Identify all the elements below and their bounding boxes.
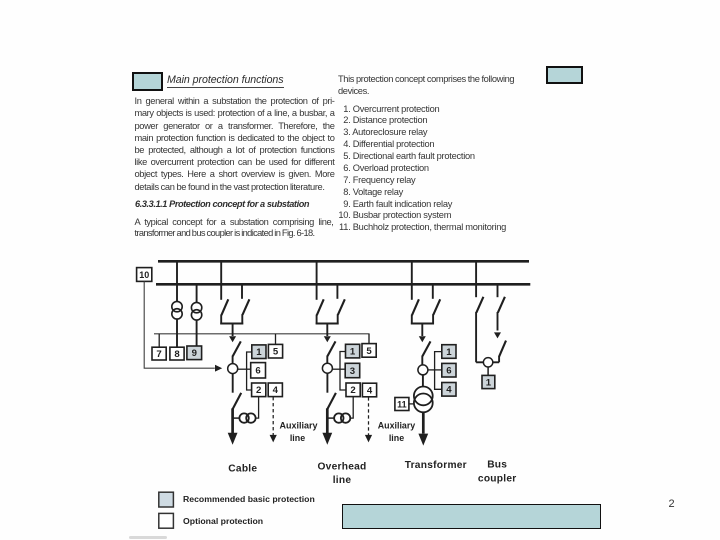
wire stub to box 7	[158, 334, 160, 347]
overhead feeder: circuit breaker blade	[327, 341, 335, 356]
bus coupler: left disconnector blade	[476, 297, 483, 313]
svg-text:Transformer: Transformer	[405, 460, 467, 471]
overhead feeder: current transformer CT	[322, 363, 332, 373]
svg-text:4: 4	[273, 385, 279, 396]
svg-text:2: 2	[350, 385, 355, 396]
auxiliary line arrowhead (cable)	[270, 435, 277, 443]
overhead feeder: wire to cable-type CT	[327, 417, 335, 419]
svg-text:Recommended basic protection: Recommended basic protection	[183, 494, 315, 504]
transformer feeder: disconnector stub from BB2	[432, 286, 434, 299]
svg-text:10: 10	[139, 270, 149, 280]
relay box 1 (overhead, shaded)	[346, 344, 360, 358]
cable feeder: disconnector blade left	[221, 299, 228, 315]
wire spine of overhead relay group	[340, 352, 346, 391]
relay box 2 (cable)	[252, 383, 266, 397]
relay box 5 (cable)	[268, 344, 282, 358]
svg-text:6: 6	[255, 366, 260, 377]
svg-text:5: 5	[273, 347, 279, 358]
svg-text:9: 9	[192, 348, 197, 359]
measuring voltage reference wire	[154, 334, 369, 344]
arrowhead pointing at cable CT	[215, 365, 222, 372]
cable feeder: line disconnector blade	[233, 393, 242, 409]
relay box 1 (cable, shaded)	[252, 345, 266, 359]
svg-text:11: 11	[397, 399, 407, 409]
transformer feeder: wire joining disconnectors	[411, 323, 434, 325]
legend swatch: recommended basic protection	[159, 492, 174, 507]
transformer feeder: wire down to breaker	[421, 324, 423, 337]
overhead feeder: outgoing feeder line	[326, 408, 329, 433]
overhead feeder: line disconnector blade	[327, 393, 336, 409]
wire CT to box 6 (transformer)	[428, 369, 442, 371]
relay box 1 (transformer, shaded)	[442, 345, 456, 359]
transformer feeder: disconnector blade left	[412, 299, 419, 315]
bus coupler: wire below breaker	[498, 356, 500, 362]
bus coupler: current transformer CT	[483, 358, 492, 367]
section heading 6.3.3.1.1	[135, 199, 309, 209]
transformer feeder: wire CT to transformer	[422, 375, 424, 387]
overhead feeder: disconnector stub from BB1	[316, 263, 318, 300]
bus coupler: draw-out arrow above breaker	[494, 332, 501, 338]
overhead feeder: outgoing feeder arrowhead	[322, 433, 332, 445]
svg-text:line: line	[389, 433, 404, 443]
svg-text:Auxiliary: Auxiliary	[279, 421, 317, 431]
overhead feeder: disconnector blade left	[317, 299, 324, 315]
wire stub to box 5 (overhead)	[368, 334, 370, 344]
overhead feeder: disconnector blade right	[338, 299, 345, 315]
svg-text:Auxiliary: Auxiliary	[378, 421, 416, 431]
auxiliary line (dashed, cable)	[272, 397, 274, 435]
auxiliary line (dashed, overhead)	[368, 397, 370, 435]
relay box 4 (cable)	[268, 383, 282, 397]
relay box 1 (bus coupler, shaded)	[482, 375, 495, 388]
transformer feeder: disconnector blade right	[433, 299, 440, 315]
wire stub to box 5 (cable)	[275, 334, 277, 345]
relay box 6 (transformer, shaded)	[442, 363, 456, 377]
legend swatch: optional protection	[159, 513, 174, 528]
bus coupler: circuit breaker blade	[499, 341, 506, 357]
bus coupler: stub to box 1	[487, 367, 489, 375]
overhead feeder: wire below right blade	[337, 314, 339, 324]
cable feeder: wire down to breaker	[232, 324, 234, 337]
wire CT to box 6 (cable)	[238, 368, 251, 370]
transformer feeder: current transformer CT	[418, 365, 428, 375]
svg-text:4: 4	[367, 385, 373, 396]
cable feeder: cable-type current transformer (toroid pair)	[239, 413, 255, 422]
slide accent bar bottom	[342, 504, 601, 530]
transformer feeder: draw-out arrow above breaker	[419, 336, 426, 342]
bus coupler: wire to CT left	[476, 361, 483, 363]
cable feeder: wire breaker to CT	[232, 356, 234, 365]
wire CT to box 3 (overhead)	[332, 368, 345, 370]
voltage transformer VT1	[172, 301, 182, 319]
cable feeder: wire below right blade	[241, 314, 243, 324]
bus coupler: right stub from BB2	[497, 286, 499, 298]
svg-text:1: 1	[486, 377, 492, 388]
wire box 11 to transformer	[409, 403, 414, 405]
transformer feeder: wire below right blade	[432, 314, 434, 324]
cable feeder: draw-out arrow above breaker	[229, 336, 236, 342]
transformer feeder: wire breaker to CT	[421, 356, 423, 366]
relay box 4 (overhead)	[362, 383, 376, 397]
svg-text:2: 2	[256, 385, 261, 396]
transformer feeder: disconnector stub from BB1	[411, 263, 413, 300]
overhead feeder: disconnector stub from BB2	[336, 286, 338, 299]
relay box 4 (transformer, shaded)	[442, 383, 456, 397]
power transformer (two-winding)	[414, 387, 433, 413]
cable feeder: wire below left blade	[220, 315, 222, 325]
overhead feeder: draw-out arrow above breaker	[324, 336, 331, 342]
svg-text:7: 7	[156, 349, 161, 360]
left column paragraph	[135, 95, 335, 193]
relay box 3 (overhead, shaded)	[345, 363, 360, 377]
bus coupler: right wire down	[497, 312, 499, 331]
relay box 8 (voltage relay)	[170, 347, 184, 360]
cable feeder: wire box 2 to toroid CT	[256, 397, 259, 418]
transformer feeder: outgoing line	[422, 412, 425, 433]
wire from box 10 to cable feeder CT	[144, 281, 215, 368]
right column numbered device list	[336, 104, 506, 235]
wire spine of transformer relay group	[435, 352, 442, 390]
page number	[669, 498, 675, 510]
overhead feeder: wire down to breaker	[326, 324, 328, 337]
cable feeder: wire below CT	[232, 373, 234, 392]
busbar BB2 (lower)	[156, 283, 530, 286]
relay box 6 (cable)	[251, 363, 266, 378]
cable feeder: wire joining disconnectors	[220, 323, 243, 325]
transformer feeder: wire below left blade	[411, 315, 413, 325]
section title	[167, 74, 284, 86]
bus coupler: left stub from BB1	[475, 263, 477, 298]
overhead feeder: wire below CT	[326, 373, 328, 393]
wire spine of cable relay group	[247, 352, 252, 390]
cable feeder: disconnector blade right	[243, 299, 250, 315]
bus coupler: wire to CT right	[493, 361, 499, 363]
overhead feeder: wire breaker to CT	[326, 356, 328, 364]
relay box 2 (overhead)	[346, 383, 360, 397]
overhead feeder: wire box 2 to toroid CT	[350, 397, 353, 418]
scan smudge bottom-left	[129, 536, 167, 539]
svg-text:Bus: Bus	[487, 460, 507, 471]
bus coupler: right disconnector blade	[498, 297, 505, 313]
svg-text:line: line	[333, 475, 352, 486]
right column intro	[338, 74, 518, 98]
overhead feeder: wire below left blade	[316, 315, 318, 325]
bus coupler: left wire down	[475, 312, 477, 362]
slide accent box top-left	[132, 72, 163, 91]
svg-text:5: 5	[366, 346, 372, 357]
svg-text:8: 8	[174, 349, 180, 360]
wire VT2 from busbar BB2	[196, 286, 198, 347]
wire VT1 from busbar BB1	[176, 263, 178, 348]
cable feeder: disconnector stub from BB1	[220, 263, 222, 300]
svg-text:1: 1	[350, 347, 356, 358]
transformer feeder: outgoing arrowhead	[418, 434, 428, 446]
busbar BB1 (upper)	[158, 260, 529, 263]
cable feeder: outgoing feeder line	[231, 408, 234, 433]
cable feeder: current transformer CT	[228, 364, 238, 374]
svg-text:4: 4	[446, 385, 452, 396]
relay box 9 (earth fault indication, shaded)	[187, 346, 202, 360]
relay box 5 (overhead)	[362, 344, 376, 358]
svg-text:Cable: Cable	[228, 463, 257, 474]
overhead feeder: cable-type current transformer (toroid pair)	[334, 413, 350, 422]
relay box 10 (busbar protection)	[137, 268, 152, 282]
svg-text:Overhead: Overhead	[318, 462, 367, 473]
cable feeder: outgoing feeder arrowhead	[228, 433, 238, 445]
left column paragraph 2	[135, 217, 334, 239]
cable feeder: circuit breaker blade	[233, 341, 241, 356]
voltage transformer VT2	[191, 302, 201, 320]
auxiliary line arrowhead (overhead)	[365, 435, 372, 443]
relay box 11 (Buchholz)	[395, 398, 409, 411]
svg-text:6: 6	[446, 366, 451, 377]
transformer feeder: circuit breaker blade	[422, 341, 430, 356]
overhead feeder: wire joining disconnectors	[316, 323, 339, 325]
svg-text:1: 1	[256, 347, 262, 358]
relay box 7 (frequency relay)	[152, 347, 166, 360]
svg-text:line: line	[290, 433, 305, 443]
cable feeder: wire to cable-type CT	[233, 417, 241, 419]
svg-text:1: 1	[446, 347, 452, 358]
svg-text:Optional protection: Optional protection	[183, 516, 263, 526]
svg-text:coupler: coupler	[478, 474, 517, 485]
svg-text:3: 3	[350, 366, 355, 377]
slide accent box top-right	[546, 66, 583, 84]
cable feeder: disconnector stub from BB2	[241, 286, 243, 299]
